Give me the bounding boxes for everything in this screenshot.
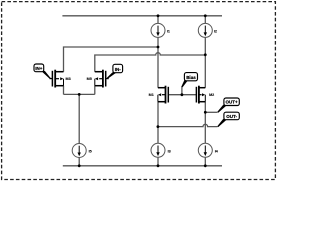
current source I3 bbox=[151, 143, 171, 157]
wire VDD top rail bbox=[62, 15, 222, 17]
node I3-VSS bbox=[157, 164, 160, 167]
svg-text:M1: M1 bbox=[149, 93, 154, 97]
svg-text:OUT-: OUT- bbox=[226, 114, 237, 119]
wire I1 leg: rail to circle, circle to M1 drain bbox=[157, 16, 159, 24]
node I4-VSS bbox=[204, 164, 207, 167]
transistor M1 bbox=[158, 86, 168, 104]
wire M5 drain to node at I2 leg (hop over I1 leg) bbox=[95, 53, 206, 72]
node VDD-I1 bbox=[157, 14, 160, 17]
wire I5 to bottom rail bbox=[78, 158, 80, 166]
svg-text:M3: M3 bbox=[66, 77, 71, 81]
svg-text:IN+: IN+ bbox=[35, 66, 43, 71]
port label IN+ bbox=[34, 64, 52, 79]
current source I5 bbox=[72, 144, 91, 158]
wire tail join M3-M5 sources bbox=[64, 93, 95, 95]
svg-text:M5: M5 bbox=[87, 77, 92, 81]
wire I2 leg: rail to circle, circle to M2 drain bbox=[204, 16, 206, 24]
current source I4 bbox=[198, 143, 218, 157]
port label OUT+ bbox=[217, 98, 239, 113]
wire bias drop bbox=[181, 87, 183, 95]
wire OUT+ tap from M2 source node bbox=[205, 111, 217, 113]
svg-text:I3: I3 bbox=[168, 150, 171, 154]
node gate bias bbox=[181, 93, 184, 96]
bias label bbox=[181, 73, 197, 88]
port label IN- bbox=[106, 64, 123, 78]
svg-text:IN-: IN- bbox=[115, 67, 122, 72]
wire VSS bottom rail bbox=[63, 165, 222, 167]
svg-text:I1: I1 bbox=[167, 30, 170, 34]
node M5 drain / I2 bbox=[204, 53, 207, 56]
wire OUT- tap from M1 source node (hop over I4 leg) bbox=[158, 124, 218, 126]
transistor M5 bbox=[95, 70, 109, 88]
node OUT+ tap bbox=[204, 111, 207, 114]
port label OUT- bbox=[217, 112, 239, 127]
svg-text:I5: I5 bbox=[89, 150, 92, 154]
wire M3 drain to node at I1 leg bbox=[64, 47, 159, 72]
schematic dashed boundary bbox=[2, 2, 276, 180]
svg-text:M2: M2 bbox=[209, 93, 214, 97]
wire M5 source down bbox=[94, 86, 96, 95]
transistor M2 bbox=[196, 86, 205, 104]
svg-text:Bias: Bias bbox=[186, 75, 196, 80]
node I5-VSS bbox=[78, 164, 81, 167]
wire M2 source down to I4 bbox=[204, 102, 206, 144]
wire M1 source down to I3 bbox=[157, 102, 159, 144]
node M3 drain / I1 bbox=[157, 46, 160, 49]
svg-text:I2: I2 bbox=[214, 30, 217, 34]
node OUT- tap bbox=[157, 125, 160, 128]
current source I2 bbox=[198, 23, 217, 37]
wire M3 source down bbox=[63, 86, 65, 95]
node VDD-I2 bbox=[204, 14, 207, 17]
svg-text:OUT+: OUT+ bbox=[226, 100, 238, 105]
wire I4 to bottom rail bbox=[204, 157, 206, 166]
wire tail down to I5 bbox=[78, 94, 80, 143]
node diff pair tail bbox=[78, 93, 81, 96]
wire I3 to bottom rail bbox=[157, 157, 159, 166]
wire gate bus M1-M2 bbox=[168, 94, 196, 96]
current source I1 bbox=[151, 23, 170, 37]
transistor M3 bbox=[50, 70, 64, 88]
